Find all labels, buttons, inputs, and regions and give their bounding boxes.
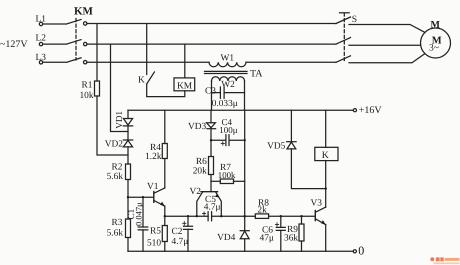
- svg-text:4.7μ: 4.7μ: [204, 203, 221, 213]
- svg-text:3~: 3~: [429, 43, 439, 54]
- svg-text:M: M: [431, 20, 441, 31]
- svg-text:0: 0: [358, 244, 364, 258]
- svg-text:100k: 100k: [218, 170, 236, 180]
- svg-text:R1: R1: [82, 81, 93, 91]
- svg-text:KM: KM: [74, 5, 94, 17]
- svg-text:R5: R5: [150, 227, 161, 237]
- svg-text:VD3: VD3: [188, 122, 207, 132]
- svg-text:L1: L1: [36, 14, 47, 24]
- svg-text:C3: C3: [205, 87, 216, 97]
- svg-text:+16V: +16V: [359, 105, 383, 116]
- svg-text:V1: V1: [147, 182, 159, 192]
- svg-text:2k: 2k: [257, 205, 267, 215]
- svg-text:47μ: 47μ: [260, 234, 274, 244]
- svg-text:~127V: ~127V: [0, 39, 28, 50]
- svg-text:10k: 10k: [79, 91, 93, 101]
- svg-text:100μ: 100μ: [219, 125, 238, 135]
- svg-text:510: 510: [147, 238, 161, 248]
- svg-text:VD5: VD5: [267, 141, 286, 151]
- svg-text:R2: R2: [112, 163, 123, 173]
- svg-text:TA: TA: [250, 68, 263, 79]
- svg-text:VD2: VD2: [105, 139, 124, 149]
- svg-text:S: S: [352, 14, 357, 25]
- svg-text:L3: L3: [36, 53, 47, 63]
- svg-text:K: K: [138, 75, 145, 85]
- svg-text:K: K: [322, 150, 329, 161]
- svg-text:L2: L2: [36, 34, 47, 44]
- svg-text:0.033μ: 0.033μ: [212, 99, 238, 109]
- svg-text:KM: KM: [177, 81, 193, 91]
- svg-text:4.7μ: 4.7μ: [172, 237, 189, 247]
- svg-text:VD1: VD1: [114, 111, 124, 129]
- svg-text:V2: V2: [190, 187, 202, 197]
- svg-text:5.6k: 5.6k: [107, 228, 124, 238]
- svg-text:C2: C2: [172, 227, 183, 237]
- svg-text:0.047μ: 0.047μ: [133, 202, 143, 226]
- svg-text:20k: 20k: [193, 167, 207, 177]
- svg-text:36k: 36k: [284, 233, 298, 243]
- svg-text:R3: R3: [112, 218, 123, 228]
- svg-text:V3: V3: [311, 198, 323, 208]
- svg-text:W1: W1: [221, 54, 235, 64]
- svg-text:VD4: VD4: [217, 233, 236, 243]
- svg-text:R6: R6: [196, 157, 207, 167]
- svg-text:5.6k: 5.6k: [107, 172, 124, 182]
- svg-text:W2: W2: [221, 80, 235, 90]
- svg-text:1.2k: 1.2k: [145, 152, 162, 162]
